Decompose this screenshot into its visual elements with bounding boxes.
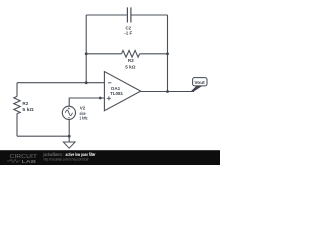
wire bottom rail — [17, 135, 69, 137]
node output / feedback — [166, 90, 169, 93]
wire top rail right segment — [131, 14, 167, 16]
wire left feedback vertical — [85, 15, 87, 83]
wire right feedback vertical — [167, 15, 169, 92]
wire non-inverting input — [69, 98, 104, 106]
ground — [63, 142, 75, 148]
wire inverting input rail — [17, 82, 104, 84]
node feedback right / R3 tap — [166, 52, 169, 55]
svg-text:C2: C2 — [125, 25, 131, 30]
op-amp OA1 — [104, 72, 140, 111]
wire V2 to ground — [68, 119, 70, 142]
svg-text:http://circuitlab.com/c/7aecc0: http://circuitlab.com/c/7aecc0b7a38 — [44, 156, 89, 161]
wire left branch vertical top — [16, 83, 18, 97]
svg-text:5 kΩ: 5 kΩ — [22, 107, 34, 112]
svg-text:-1 F: -1 F — [124, 31, 132, 36]
wire top rail left segment — [86, 14, 127, 16]
svg-text:Vout: Vout — [194, 80, 205, 85]
wire R3 rail left — [86, 53, 121, 55]
node non-inverting pin — [99, 97, 102, 100]
net flag Vout — [191, 78, 207, 92]
node ground junction — [68, 135, 71, 138]
svg-text:R2: R2 — [22, 101, 28, 106]
resistor R3 — [122, 50, 140, 57]
resistor R2 — [14, 96, 20, 113]
capacitor C2 — [127, 7, 130, 22]
watermark logo zigzag — [7, 159, 20, 162]
svg-text:5 kΩ: 5 kΩ — [125, 65, 136, 70]
svg-text:TL081: TL081 — [110, 91, 124, 96]
svg-text:R3: R3 — [128, 58, 134, 63]
svg-text:1 kHz: 1 kHz — [80, 116, 89, 121]
node feedback left / inverting input — [85, 81, 88, 84]
wire R3 rail right — [140, 53, 168, 55]
node feedback left / R3 tap — [85, 52, 88, 55]
wire output — [141, 91, 194, 93]
svg-text:LAB: LAB — [22, 159, 37, 165]
watermark bar — [0, 150, 220, 165]
voltage source V2 — [62, 106, 75, 119]
wire left branch vertical bottom — [16, 114, 18, 137]
